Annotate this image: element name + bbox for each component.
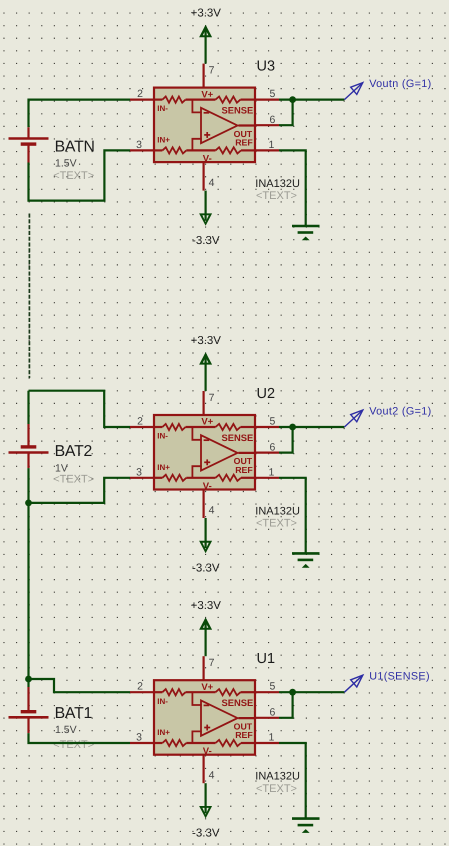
pin 5 stub (U2 SENSE) — [255, 426, 279, 428]
op-amp triangle inside U1 — [201, 700, 238, 735]
net label arrow Voutn (G=1) — [344, 83, 362, 100]
battery BAT2 — [9, 447, 49, 453]
pin 4 stub (U2 V-) — [203, 490, 205, 519]
svg-text:SENSE: SENSE — [222, 105, 254, 116]
resistor U2 input R (IN+) — [162, 475, 186, 481]
op-amp U1 INA132U — [130, 656, 279, 783]
resistor U1 feedback R (SENSE) — [216, 689, 241, 695]
ground symbol (U2 REF) — [292, 553, 320, 567]
pin 5 stub (U3 SENSE) — [255, 98, 279, 100]
resistor U2 feedback R (SENSE) — [216, 424, 241, 430]
svg-text:V+: V+ — [201, 89, 213, 100]
svg-text:1.5V: 1.5V — [55, 158, 77, 170]
wire +3.3V to U3 pin 7 — [205, 27, 207, 64]
svg-text:IN+: IN+ — [157, 728, 170, 737]
svg-text:INA132U: INA132U — [255, 505, 300, 517]
svg-text:7: 7 — [209, 65, 215, 77]
resistor U3 input R (IN-) — [162, 97, 185, 103]
wire BAT1 + to U1 pin 2 — [29, 679, 131, 692]
svg-text:1: 1 — [268, 732, 274, 744]
svg-text:1: 1 — [268, 466, 274, 478]
svg-text:+3.3V: +3.3V — [191, 600, 222, 612]
svg-text:6: 6 — [269, 441, 275, 453]
svg-text:U1: U1 — [257, 651, 276, 667]
op-amp triangle inside U2 — [201, 435, 238, 470]
svg-text:IN-: IN- — [157, 432, 168, 441]
resistor U1 input R (IN-) — [162, 689, 185, 695]
svg-text:5: 5 — [269, 681, 275, 693]
wire +3.3V to U2 pin 7 — [205, 354, 207, 391]
svg-text:Vout2 (G=1): Vout2 (G=1) — [369, 405, 431, 417]
svg-text:REF: REF — [235, 730, 253, 740]
ground symbol (U3 REF) — [292, 226, 320, 240]
svg-text:IN+: IN+ — [157, 463, 170, 472]
power -3.3V (U1 pin 4 V-) — [192, 783, 220, 839]
wire U1 pin 5 to net label — [279, 691, 344, 693]
svg-text:-3.3V: -3.3V — [192, 562, 220, 574]
resistor U1 input R (IN+) — [162, 740, 186, 746]
power -3.3V (U3 pin 4 V-) — [192, 191, 220, 247]
battery BAT1 — [9, 712, 49, 718]
wire op-amp output to OUT pin — [238, 717, 255, 719]
pin 1 stub (U1 REF) — [255, 742, 279, 744]
wire BATN - to U3 pin 3 — [29, 150, 131, 200]
wire battery bus down to U1 section — [27, 503, 29, 679]
svg-text:1.5V: 1.5V — [55, 724, 77, 736]
pin 1 stub (U2 REF) — [255, 477, 279, 479]
wire node to op-amp non-inverting input — [192, 139, 201, 151]
wire U2 pin 3 to junction — [29, 478, 131, 503]
wire U3 pin 6 feedback to pin 5 — [279, 100, 293, 126]
wire internal top node — [186, 426, 216, 428]
wire node to op-amp inverting input — [192, 427, 201, 440]
svg-text:5: 5 — [269, 416, 275, 428]
svg-text:7: 7 — [209, 657, 215, 669]
svg-text:<TEXT>: <TEXT> — [53, 170, 94, 182]
wire node to op-amp inverting input — [192, 100, 201, 113]
wire op-amp output to OUT pin — [238, 452, 255, 454]
svg-text:<TEXT>: <TEXT> — [256, 518, 297, 530]
svg-text:U3: U3 — [257, 59, 276, 75]
resistor U2 input R (IN-) — [162, 424, 185, 430]
wire internal bottom node — [186, 477, 215, 479]
wire U1 pin 1 REF to ground — [279, 743, 306, 819]
svg-text:INA132U: INA132U — [255, 178, 300, 190]
pin 6 stub (U3 OUT) — [255, 124, 279, 126]
net label arrow U1(SENSE) — [344, 675, 362, 692]
pin 1 stub (U3 REF) — [255, 149, 279, 151]
svg-text:7: 7 — [209, 392, 215, 404]
wire BAT2 - down to junction — [27, 468, 29, 503]
svg-text:3: 3 — [136, 466, 142, 478]
wire internal bottom node — [186, 149, 215, 151]
svg-text:BAT2: BAT2 — [55, 443, 93, 460]
wire BAT1 - to U1 pin 3 — [29, 733, 131, 743]
wire node to op-amp non-inverting input — [192, 466, 201, 478]
pin 2 stub (U1 IN-) — [130, 691, 154, 693]
power +3.3V (U1 pin 7 V+) — [191, 600, 222, 630]
pin 3 stub (U2 IN+) — [130, 477, 154, 479]
pin 7 stub (U3 V+) — [203, 64, 205, 88]
pin 5 stub (U1 SENSE) — [255, 691, 279, 693]
svg-text:SENSE: SENSE — [222, 697, 254, 708]
pin 4 stub (U3 V-) — [203, 162, 205, 191]
svg-text:6: 6 — [269, 707, 275, 719]
wire BATN + to U3 pin 2 — [29, 100, 131, 128]
op-amp U2 INA132U — [130, 391, 279, 518]
power +3.3V (U3 pin 7 V+) — [191, 7, 222, 37]
svg-text:2: 2 — [137, 681, 143, 693]
resistor U2 gain R (REF) — [216, 475, 242, 481]
svg-text:IN-: IN- — [157, 697, 168, 706]
pin 2 stub (U3 IN-) — [130, 98, 154, 100]
junction dot on U3 output — [289, 96, 296, 103]
svg-text:BATN: BATN — [55, 139, 95, 156]
svg-text:+3.3V: +3.3V — [191, 335, 222, 347]
wire internal top node — [186, 691, 216, 693]
wire node to op-amp non-inverting input — [192, 731, 201, 743]
wire internal top node — [186, 98, 216, 100]
wire BAT1 top — [27, 679, 29, 687]
resistor U3 feedback R (SENSE) — [216, 97, 241, 103]
op-amp U3 INA132U — [130, 64, 279, 191]
pin 3 stub (U3 IN+) — [130, 149, 154, 151]
wire op-amp output to OUT pin — [238, 124, 255, 126]
svg-text:IN+: IN+ — [157, 135, 170, 144]
svg-text:U1(SENSE): U1(SENSE) — [369, 671, 430, 683]
svg-text:V+: V+ — [201, 417, 213, 428]
wire internal bottom node — [186, 742, 215, 744]
ground symbol (U1 REF) — [292, 819, 320, 833]
junction dot on U1 output — [289, 689, 296, 696]
battery BAT2 top lead — [27, 424, 29, 447]
svg-text:2: 2 — [137, 88, 143, 100]
svg-text:3: 3 — [136, 732, 142, 744]
battery BATN bottom lead — [27, 144, 29, 162]
op-amp triangle inside U3 — [201, 108, 238, 143]
resistor U1 gain R (REF) — [216, 740, 242, 746]
svg-text:+3.3V: +3.3V — [191, 7, 222, 19]
wire U2 pin 1 REF to ground — [279, 478, 306, 554]
resistor U3 gain R (REF) — [216, 147, 242, 153]
svg-text:BAT1: BAT1 — [55, 705, 93, 722]
battery BATN top lead — [27, 127, 29, 138]
svg-text:SENSE: SENSE — [222, 432, 254, 443]
wire U1 pin 6 feedback to pin 5 — [279, 692, 293, 718]
battery BAT1 bottom lead — [27, 717, 29, 733]
pin 7 stub (U2 V+) — [203, 391, 205, 415]
junction dot BAT1 plus node — [25, 676, 32, 683]
svg-text:V+: V+ — [201, 682, 213, 693]
wire BAT2 top — [27, 391, 29, 424]
pin 6 stub (U2 OUT) — [255, 452, 279, 454]
pin 2 stub (U2 IN-) — [130, 426, 154, 428]
junction dot on U2 output — [289, 424, 296, 431]
svg-text:IN-: IN- — [157, 104, 168, 113]
svg-text:2: 2 — [137, 416, 143, 428]
wire U3 pin 5 to net label — [279, 98, 344, 100]
svg-text:<TEXT>: <TEXT> — [256, 783, 297, 795]
pin 7 stub (U1 V+) — [203, 656, 205, 680]
wire node to op-amp inverting input — [192, 692, 201, 705]
svg-text:-3.3V: -3.3V — [192, 828, 220, 840]
junction dot BAT2 minus node — [25, 500, 32, 507]
battery BATN — [9, 139, 49, 145]
wire U3 pin 1 REF to ground — [279, 150, 306, 226]
svg-text:3: 3 — [136, 139, 142, 151]
wire U2 pin 5 to net label — [279, 426, 344, 428]
svg-text:4: 4 — [209, 177, 215, 189]
svg-text:Voutn (G=1): Voutn (G=1) — [369, 78, 431, 90]
power -3.3V (U2 pin 4 V-) — [192, 518, 220, 574]
svg-text:4: 4 — [209, 505, 215, 517]
power +3.3V (U2 pin 7 V+) — [191, 335, 222, 365]
dashed continuation wire (battery stack) — [28, 214, 30, 379]
svg-text:4: 4 — [209, 770, 215, 782]
svg-text:-3.3V: -3.3V — [192, 235, 220, 247]
wire +3.3V to U1 pin 7 — [205, 619, 207, 656]
pin 6 stub (U1 OUT) — [255, 717, 279, 719]
svg-text:5: 5 — [269, 88, 275, 100]
battery BAT1 top lead — [27, 687, 29, 712]
pin 4 stub (U1 V-) — [203, 755, 205, 784]
battery BAT2 bottom lead — [27, 453, 29, 469]
svg-text:6: 6 — [269, 114, 275, 126]
svg-text:INA132U: INA132U — [255, 771, 300, 783]
wire BAT2 + to U2 pin 2 — [29, 391, 131, 427]
net label arrow Vout2 (G=1) — [344, 410, 362, 427]
svg-text:1V: 1V — [55, 462, 68, 474]
resistor U3 input R (IN+) — [162, 147, 186, 153]
svg-text:<TEXT>: <TEXT> — [256, 190, 297, 202]
svg-text:U2: U2 — [257, 386, 276, 402]
svg-text:REF: REF — [235, 465, 253, 475]
svg-text:REF: REF — [235, 138, 253, 148]
svg-text:<TEXT>: <TEXT> — [53, 739, 94, 751]
svg-text:<TEXT>: <TEXT> — [53, 474, 94, 486]
svg-text:1: 1 — [268, 139, 274, 151]
pin 3 stub (U1 IN+) — [130, 742, 154, 744]
wire U2 pin 6 feedback to pin 5 — [279, 427, 293, 453]
